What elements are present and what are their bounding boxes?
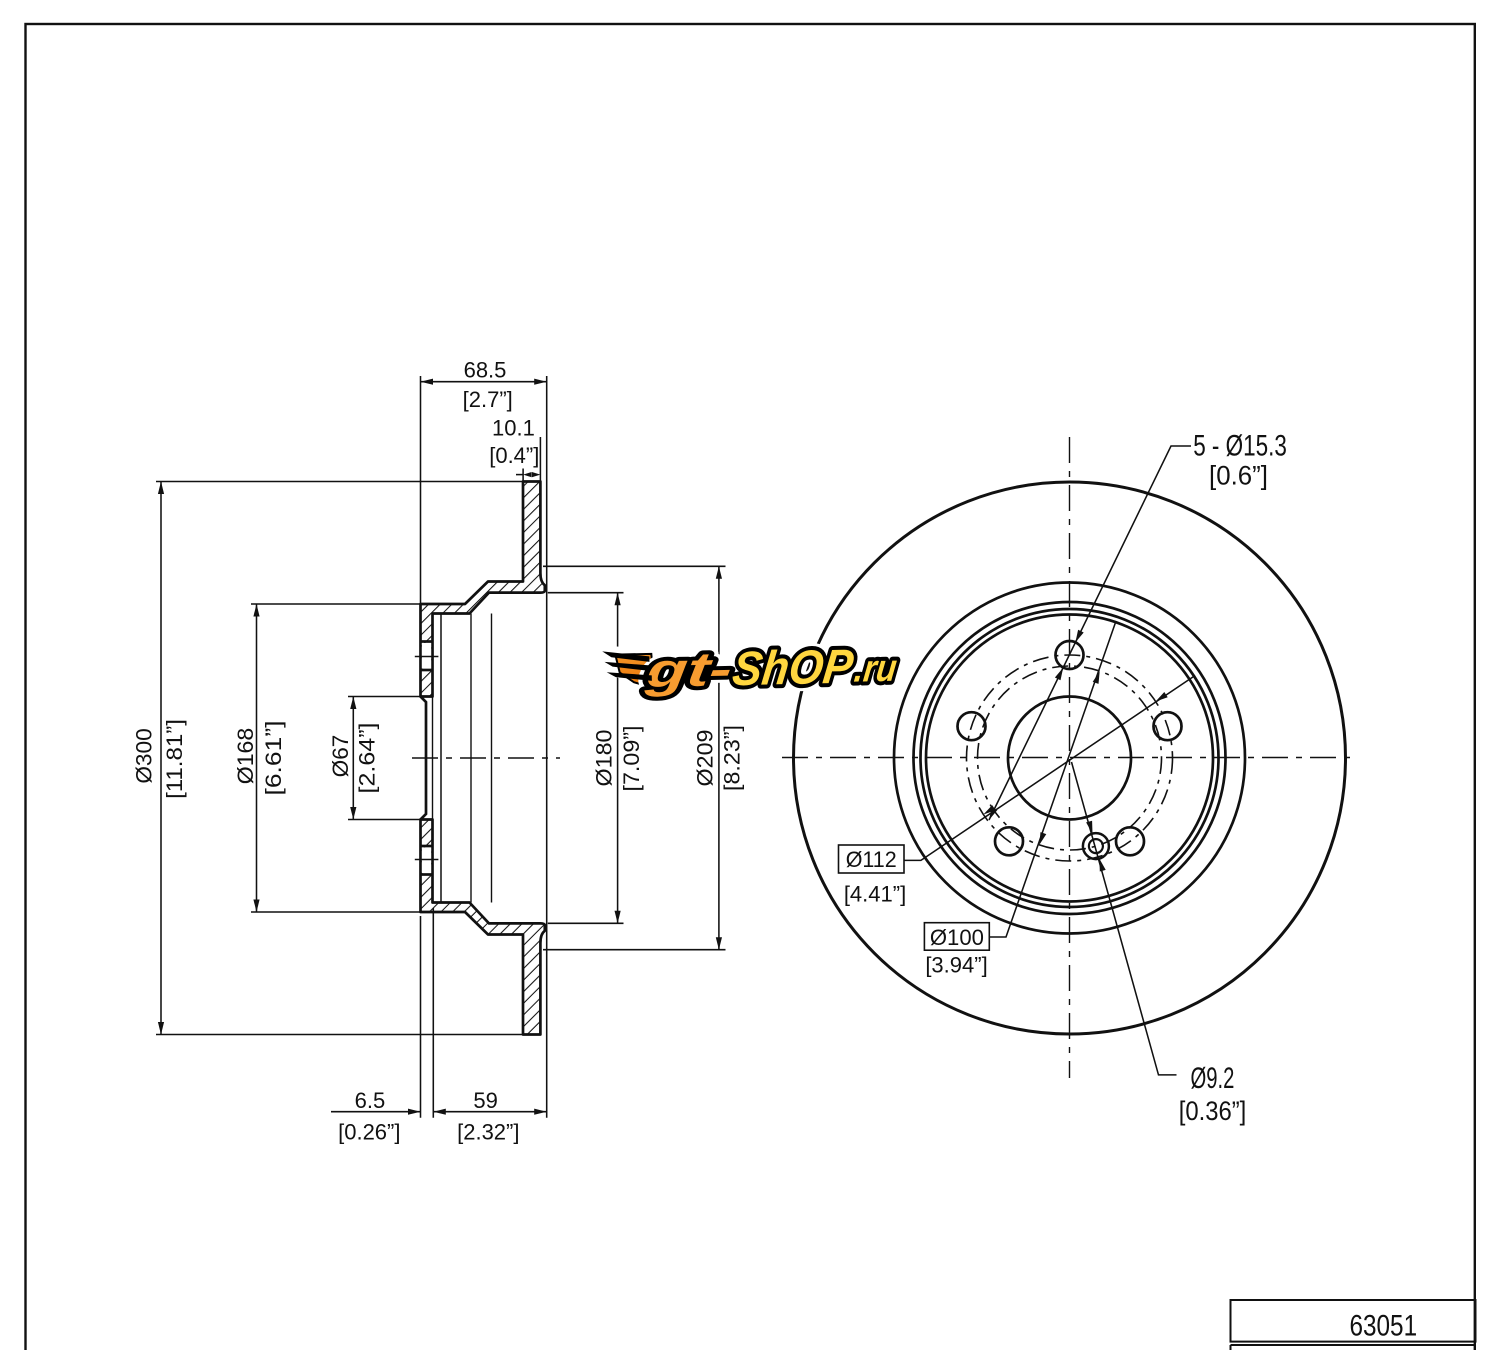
- circle r149: [921, 609, 1219, 907]
- center bore Ø67: [1008, 697, 1131, 820]
- gt-shop.ru watermark logo: [611, 649, 655, 691]
- svg-text:10.1: 10.1: [492, 415, 535, 440]
- leader 5-Ø15.3: [989, 446, 1191, 820]
- svg-text:Ø112: Ø112: [846, 847, 897, 872]
- section centerline: [412, 757, 560, 759]
- leader Ø9.2: [1072, 762, 1177, 1075]
- dim 6.5 bottom: [331, 908, 433, 1118]
- bolt circle Ø100 dashed: [978, 666, 1162, 850]
- dim 68.5 top: [421, 376, 547, 1118]
- outer circle Ø300: [794, 482, 1346, 1034]
- front view centerline horizontal: [782, 757, 1356, 759]
- svg-text:6.5: 6.5: [355, 1088, 386, 1113]
- svg-text:[2.32”]: [2.32”]: [457, 1120, 519, 1145]
- bolt hole 5 Ø15.3: [1116, 827, 1144, 855]
- svg-text:[0.6”]: [0.6”]: [1209, 461, 1268, 491]
- hole Ø9.2 with chamfer: [1083, 833, 1109, 859]
- svg-text:Ø209: Ø209: [692, 730, 717, 787]
- svg-text:68.5: 68.5: [464, 358, 507, 383]
- leader Ø112 diameter line: [904, 676, 1195, 861]
- dim 59 bottom: [433, 1111, 546, 1113]
- front view centerline vertical: [1069, 437, 1071, 1078]
- svg-text:ShOP: ShOP: [730, 640, 857, 696]
- dim Ø180: [548, 593, 624, 924]
- svg-text:[8.23”]: [8.23”]: [720, 725, 745, 791]
- svg-text:[6.61”]: [6.61”]: [261, 721, 286, 796]
- label box Ø100: [924, 923, 989, 951]
- section profile top half (hatched): [415, 482, 545, 697]
- dim Ø300 left: [156, 482, 523, 1035]
- svg-text:[7.09”]: [7.09”]: [619, 726, 644, 792]
- circle r175.5: [894, 583, 1245, 934]
- center bore chamfers and bore surface: [421, 697, 427, 820]
- svg-text:Ø180: Ø180: [592, 730, 617, 787]
- svg-text:gt-: gt-: [642, 642, 735, 698]
- label box Ø112: [839, 845, 905, 873]
- dim Ø168: [251, 604, 421, 912]
- svg-text:59: 59: [473, 1088, 497, 1113]
- svg-text:[4.41”]: [4.41”]: [844, 882, 906, 907]
- bolt circle Ø112 dashed: [967, 655, 1173, 861]
- dim 10.1: [516, 437, 540, 482]
- bolt hole 4 Ø15.3: [995, 827, 1023, 855]
- leader Ø100 diameter line: [989, 621, 1116, 937]
- logo speed lines: [602, 650, 652, 682]
- dim Ø209: [543, 566, 726, 949]
- title block: [1231, 1300, 1476, 1342]
- svg-text:5 - Ø15.3: 5 - Ø15.3: [1193, 429, 1287, 462]
- bolt hole 1 Ø15.3: [1056, 641, 1084, 669]
- circle r143.5: [926, 615, 1213, 902]
- circle r156: [914, 602, 1226, 914]
- svg-text:[0.4”]: [0.4”]: [489, 443, 539, 468]
- svg-text:63051: 63051: [1350, 1309, 1418, 1342]
- svg-text:Ø9.2: Ø9.2: [1191, 1062, 1235, 1095]
- bolt hole 2 Ø15.3: [958, 712, 986, 740]
- svg-text:Ø300: Ø300: [132, 728, 157, 783]
- svg-text:Ø67: Ø67: [328, 735, 353, 778]
- svg-text:Ø168: Ø168: [233, 728, 258, 785]
- svg-text:[2.7”]: [2.7”]: [463, 387, 513, 412]
- svg-text:[11.81”]: [11.81”]: [162, 719, 187, 799]
- svg-text:.ru: .ru: [852, 647, 899, 691]
- bolt hole 3 Ø15.3: [1154, 712, 1182, 740]
- svg-text:[0.36”]: [0.36”]: [1179, 1096, 1247, 1126]
- svg-text:[0.26”]: [0.26”]: [338, 1120, 400, 1145]
- svg-text:Ø100: Ø100: [930, 925, 984, 950]
- inner cylinder elevation edges: [433, 614, 492, 903]
- dim Ø67: [348, 697, 421, 820]
- svg-text:[3.94”]: [3.94”]: [925, 952, 987, 977]
- svg-text:[2.64”]: [2.64”]: [355, 723, 380, 794]
- section profile bottom half (hatched): [415, 820, 545, 1035]
